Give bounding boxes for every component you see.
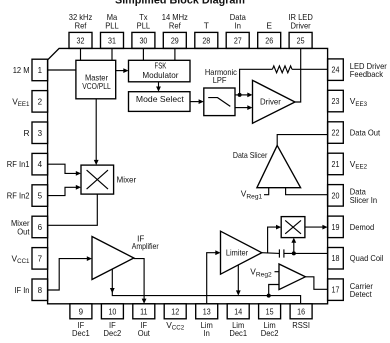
svg-text:2: 2 [38, 97, 43, 106]
svg-text:Out: Out [138, 328, 151, 338]
svg-text:Driver: Driver [291, 20, 311, 30]
wire: Master VCO/PLL down to Mixer LO port (arrow) [94, 99, 99, 165]
pin 15 box (bottom) [259, 304, 281, 338]
amplifier: Limiter triangle [221, 231, 262, 274]
svg-text:11: 11 [140, 308, 148, 317]
svg-text:Feedback: Feedback [350, 69, 384, 79]
wire: pin 5 (RF In2) to Mixer (arrow) [48, 185, 81, 196]
svg-text:PLL: PLL [137, 20, 151, 30]
svg-text:7: 7 [38, 254, 43, 263]
pin 1 box (left) [13, 59, 48, 80]
svg-text:12 M: 12 M [13, 65, 30, 75]
wire: Limiter output row through capacitor to pin 18 (Quad Coil), junction dot [262, 251, 328, 255]
svg-text:Detect: Detect [350, 289, 372, 299]
svg-text:Ref: Ref [75, 20, 87, 30]
pin 20 box (right) [328, 185, 378, 207]
block: FSK Modulator [129, 60, 191, 82]
svg-text:Dec2: Dec2 [104, 328, 122, 338]
svg-text:6: 6 [38, 223, 43, 232]
svg-text:Quad Coil: Quad Coil [350, 253, 384, 263]
wire: rail tap up to VReg2 lower input [269, 285, 279, 296]
pin 27 box (top) [226, 12, 249, 48]
wire: Demod output to pin 19 (Demod, arrow) [305, 225, 328, 230]
wire: pin 1 (12 M) to Master VCO/PLL [48, 69, 76, 71]
pin 12 box (bottom) [164, 304, 186, 332]
label: VReg1 (data slicer reference) [241, 189, 263, 201]
pin 23 box (right) [328, 90, 368, 112]
svg-text:30: 30 [139, 36, 147, 45]
pin 32 box (top) [69, 12, 93, 48]
svg-text:Slicer In: Slicer In [350, 195, 378, 205]
svg-text:Data Out: Data Out [350, 128, 381, 138]
svg-text:10: 10 [108, 308, 116, 317]
wire: IF Amplifier RSSI tap down (arrow) onto RSSI rail [110, 269, 260, 296]
wire: pin 4 (RF In1) to Mixer (arrow) [48, 164, 81, 176]
pin 25 box (top) [288, 12, 312, 48]
wire: IF Amplifier output right then down to pin 11 (IF Out, arrow) [134, 259, 147, 304]
wire: VReg2 label input stub [275, 271, 280, 273]
wire: pin 29 stub into FSK Modulator [174, 48, 176, 60]
svg-text:Dec1: Dec1 [229, 328, 247, 338]
svg-text:Data Slicer: Data Slicer [233, 150, 268, 160]
wire: pin 8 (IF In) up to IF Amplifier input (arrow) [48, 256, 92, 290]
svg-text:Limiter: Limiter [226, 247, 248, 257]
block: Mode Select [129, 92, 191, 112]
resistor: LED driver feedback resistor [272, 66, 292, 73]
svg-text:RSSI: RSSI [292, 320, 310, 330]
pin 10 box (bottom) [101, 304, 123, 338]
svg-text:23: 23 [332, 97, 340, 106]
svg-text:20: 20 [332, 191, 340, 200]
pin 13 box (bottom) [196, 304, 218, 338]
svg-text:Amplifier: Amplifier [132, 241, 159, 251]
svg-text:Modulator: Modulator [142, 70, 178, 80]
svg-text:12: 12 [171, 308, 179, 317]
pin 22 box (right) [328, 122, 381, 144]
svg-text:3: 3 [38, 129, 43, 138]
svg-text:4: 4 [38, 160, 43, 169]
svg-text:In: In [235, 20, 242, 30]
wire: Mixer output down and left to pin 6 (Mixer Out) [48, 194, 98, 225]
svg-text:RF In1: RF In1 [7, 159, 30, 169]
svg-text:T: T [204, 20, 209, 30]
svg-text:9: 9 [79, 308, 84, 317]
svg-text:Ref: Ref [169, 20, 181, 30]
pin 6 box (left) [11, 216, 48, 238]
wire: pin 25 (IR LED Driver) down to Driver output apex [295, 48, 301, 102]
svg-text:RF In2: RF In2 [7, 191, 30, 201]
wire: Data Slicer reference stub to VReg1 [264, 188, 269, 195]
svg-text:32: 32 [77, 36, 85, 45]
svg-text:E: E [266, 20, 272, 30]
wire: Master VCO/PLL to FSK Modulator (arrow) [116, 68, 129, 73]
pin 7 box (left) [12, 248, 48, 270]
pin 24 box (right) [328, 59, 387, 81]
svg-text:25: 25 [297, 36, 305, 45]
pin 2 box (left) [12, 91, 47, 113]
svg-text:PLL: PLL [105, 20, 119, 30]
svg-text:8: 8 [38, 286, 43, 295]
block: Harmonic LPF (low-pass filter symbol) [204, 67, 237, 116]
wire: FSK Modulator down to Mode Select (arrow) [156, 82, 161, 92]
svg-text:14: 14 [234, 308, 242, 317]
svg-text:26: 26 [265, 36, 273, 45]
svg-text:1: 1 [38, 66, 43, 75]
pin 21 box (right) [328, 153, 368, 175]
svg-text:24: 24 [332, 66, 340, 75]
mixer: Mixer (X in box) [81, 165, 136, 194]
wire: VReg2 output to pin 17 (Carrier Detect) [305, 277, 327, 290]
chip body outline with chamfered top-left corner [48, 48, 328, 303]
svg-text:22: 22 [332, 129, 340, 138]
wire: limiter output up into Demod input (arrow) [268, 225, 282, 254]
svg-text:Mixer: Mixer [117, 175, 137, 185]
amplifier: Driver triangle [253, 80, 296, 123]
svg-text:18: 18 [332, 254, 340, 263]
pin 26 box (top) [258, 20, 281, 48]
svg-text:31: 31 [108, 36, 116, 45]
wire: LPF lower output to Driver input (arrow) [235, 105, 253, 110]
svg-text:Dec2: Dec2 [261, 328, 279, 338]
pin 29 box (top) [162, 12, 188, 48]
wire: pin 13 (Lim In) up to Limiter input (arrow) [207, 250, 221, 303]
pin 14 box (bottom) [227, 304, 249, 338]
svg-text:21: 21 [332, 160, 340, 169]
wire: quad tank up into Demod bottom (arrow up) [291, 238, 296, 254]
svg-text:FSK: FSK [155, 61, 167, 71]
pin 4 box (left) [7, 153, 48, 175]
block: Master VCO/PLL [76, 60, 116, 99]
svg-text:28: 28 [202, 36, 210, 45]
svg-text:19: 19 [332, 223, 340, 232]
svg-text:13: 13 [203, 308, 211, 317]
svg-text:Demod: Demod [350, 222, 375, 232]
comparator: Data Slicer triangle (points up) [233, 145, 301, 187]
wire: pin 30 stub into FSK Modulator [142, 48, 144, 60]
pin 18 box (right) [328, 248, 384, 270]
svg-text:5: 5 [38, 192, 43, 201]
mixer: Demod (X in box) [281, 217, 305, 238]
pin 31 box (top) [101, 12, 124, 48]
wire: Mode Select to Harmonic LPF (arrow) [190, 99, 204, 104]
pin 3 box (left) [23, 122, 47, 144]
svg-text:Mode Select: Mode Select [136, 94, 185, 104]
wire: pin 31 stub into Master VCO/PLL [111, 48, 113, 60]
svg-text:16: 16 [297, 308, 305, 317]
pin 9 box (bottom) [70, 304, 92, 338]
svg-text:Simplified Block Diagram: Simplified Block Diagram [115, 0, 245, 7]
pin 30 box (top) [132, 12, 155, 48]
pin 16 box (bottom) [290, 304, 312, 330]
pin 28 box (top) [195, 20, 218, 48]
svg-text:In: In [204, 328, 211, 338]
wire: LPF upper output to Driver input (arrow), junction dot for feedback tap [235, 93, 253, 98]
svg-text:R: R [23, 128, 29, 138]
wire: pin 32 stub into Master VCO/PLL [80, 48, 82, 60]
capacitor: limiter output coupling capacitor [279, 249, 284, 257]
svg-text:Out: Out [17, 226, 30, 236]
pin 19 box (right) [328, 216, 375, 238]
wire: feedback node up and through resistor to pin 24 (LED Driver Feedback) [240, 69, 328, 95]
svg-text:IF In: IF In [14, 285, 29, 295]
svg-text:Driver: Driver [260, 97, 281, 107]
pin 11 box (bottom) [133, 304, 155, 338]
regulator: VReg2 triangle [250, 264, 305, 290]
pin 17 box (right) [328, 279, 373, 301]
wire: RSSI rail to pin 16 (RSSI), junction dot at VReg2 tap [260, 294, 301, 304]
svg-text:Dec1: Dec1 [72, 328, 90, 338]
pin 8 box (left) [14, 279, 47, 301]
pin 5 box (left) [7, 185, 48, 207]
svg-text:15: 15 [266, 308, 274, 317]
svg-text:17: 17 [332, 286, 340, 295]
svg-text:LPF: LPF [213, 75, 227, 85]
svg-text:29: 29 [171, 36, 179, 45]
svg-text:VCO/PLL: VCO/PLL [82, 81, 111, 91]
svg-text:27: 27 [234, 36, 242, 45]
amplifier: IF Amplifier triangle [92, 233, 159, 279]
wire: Data Slicer output up and right to pin 22 (Data Out) [277, 135, 327, 146]
wire: Limiter RSSI tap down to rail (arrow) [236, 265, 241, 296]
wire: Data Slicer input from pin 20 (Data Slicer In) [286, 188, 328, 195]
